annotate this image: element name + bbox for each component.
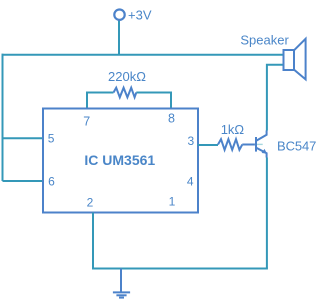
- svg-text:BC547: BC547: [277, 139, 316, 154]
- transistor Q1 base lead ghost: [256, 143, 263, 145]
- svg-text:3: 3: [188, 134, 195, 148]
- transistor Q1 emitter arrow: [262, 149, 267, 154]
- resistor 1k zigzag: [218, 139, 242, 150]
- wire: bottom rail: [92, 268, 268, 270]
- wire: pin 5 to left rail: [3, 137, 45, 139]
- transistor Q1 collector stroke: [256, 131, 267, 141]
- svg-text:5: 5: [48, 131, 55, 145]
- svg-text:7: 7: [83, 115, 90, 129]
- ground bar 3: [119, 297, 124, 299]
- wire: collector to speaker: [267, 65, 284, 131]
- wire: left vertical rail: [2, 54, 4, 181]
- svg-text:1kΩ: 1kΩ: [221, 122, 245, 137]
- svg-text:IC UM3561: IC UM3561: [84, 152, 155, 168]
- svg-text:220kΩ: 220kΩ: [108, 69, 146, 84]
- wire: pin 2 drop: [92, 213, 94, 269]
- svg-text:6: 6: [48, 174, 55, 188]
- wire: pin 7 riser and left feed of R1: [87, 93, 114, 109]
- ground bar 2: [116, 294, 126, 296]
- wire: +3V stem: [118, 21, 120, 56]
- svg-text:1: 1: [169, 195, 176, 209]
- svg-text:Speaker: Speaker: [240, 32, 289, 47]
- wire: emitter down to bottom rail: [266, 158, 268, 269]
- svg-text:+3V: +3V: [128, 8, 152, 23]
- ground bar 1: [113, 291, 130, 293]
- svg-text:4: 4: [187, 175, 194, 189]
- power terminal +3V: [114, 10, 124, 20]
- transistor Q1 emitter stroke: [256, 148, 267, 158]
- IC U1 UM3561 body: [43, 109, 198, 213]
- transistor Q1 base bar: [255, 137, 257, 152]
- wire: right feed of R1 and pin 8 riser: [136, 93, 171, 109]
- transistor Q1 BC547 base lead: [242, 144, 255, 146]
- ground stem: [120, 269, 122, 293]
- speaker driver box: [284, 50, 295, 70]
- wire: top supply rail: [2, 54, 284, 56]
- wire: pin 6 to left rail: [3, 180, 45, 182]
- svg-text:8: 8: [168, 112, 175, 126]
- speaker cone: [294, 39, 306, 80]
- svg-text:2: 2: [87, 195, 94, 209]
- resistor 220k zigzag: [114, 88, 137, 98]
- wire: pin 3 to R2: [198, 144, 219, 146]
